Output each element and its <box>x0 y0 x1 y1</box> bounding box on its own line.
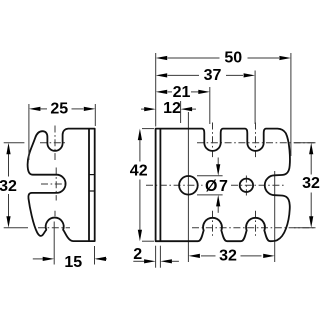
svg-text:21: 21 <box>173 84 191 101</box>
arrow 15 left <box>43 257 55 261</box>
dim line 50 left seg <box>168 57 220 59</box>
svg-text:7: 7 <box>219 178 228 195</box>
centerline left hook horizontal <box>38 227 70 229</box>
leader dia7 top tangent <box>197 175 223 177</box>
arrow 2 left (outside) <box>144 259 156 263</box>
ext line 32R bottom <box>294 227 316 229</box>
arrow 15 right <box>95 257 107 261</box>
ext tick 42 top <box>142 128 154 130</box>
centerline bottom hooks horizontal <box>192 227 316 229</box>
dim line 25 left seg <box>41 108 48 110</box>
ext line 12 right <box>180 101 182 123</box>
arrow 32B right <box>263 254 275 258</box>
dim line 32R lower seg <box>310 193 312 217</box>
left view flange tick lower <box>89 190 95 192</box>
centerline holes horizontal right <box>231 184 286 186</box>
centerline left hook vertical dash <box>54 211 56 216</box>
right view part outline <box>156 129 290 242</box>
ext line 37 right <box>254 71 256 125</box>
ext line left edge (50/37/21/12) <box>155 53 157 127</box>
dim line 32B left seg <box>201 255 216 257</box>
arrow 37 left <box>156 73 168 77</box>
centerline top notches horizontal <box>197 142 316 144</box>
tail 2 right <box>172 260 179 262</box>
arrow 32R down <box>309 216 313 228</box>
ext line 32L top <box>4 142 25 144</box>
ext line 15 left (hook center) <box>53 222 55 265</box>
arrow 12 left (outside) <box>144 107 156 111</box>
dim line 50 right seg <box>248 57 280 59</box>
centerline holes horizontal left <box>146 184 203 186</box>
arrow 50 right <box>279 56 291 60</box>
hole1 centerline / ext 32 bottom left <box>187 112 189 262</box>
tail 2 left <box>133 260 144 262</box>
ext line 25 left <box>28 104 30 160</box>
arrow 42 down <box>138 230 142 242</box>
svg-text:Ø: Ø <box>205 178 217 195</box>
centerline left notch vertical <box>54 126 56 161</box>
dim line 32L lower seg <box>8 194 10 217</box>
centerline left tongue horizontal <box>41 183 69 185</box>
centerline hook B vertical <box>255 211 257 237</box>
arrow 32L up <box>6 143 10 155</box>
dim line 21 right seg <box>191 91 200 93</box>
ext line 2 right <box>159 246 161 268</box>
centerline notch B vertical <box>255 123 257 158</box>
arrow 25 left <box>29 107 41 111</box>
arrow 2 right (outside) <box>160 259 172 263</box>
ext line 50 right <box>290 53 292 156</box>
dim line 21 left seg <box>168 91 173 93</box>
centerline hook A vertical <box>212 211 214 237</box>
svg-text:32: 32 <box>0 178 17 195</box>
dim line 32R upper seg <box>310 154 312 175</box>
ext line 2 left <box>155 246 157 268</box>
svg-text:15: 15 <box>64 254 82 271</box>
arrow 32R up <box>309 143 313 155</box>
arrow 21 right <box>198 90 210 94</box>
ext tick 42 bottom <box>142 240 154 242</box>
dim line 32B right seg <box>241 255 262 257</box>
dim line 32L upper seg <box>8 154 10 177</box>
svg-text:25: 25 <box>50 100 68 117</box>
svg-text:32: 32 <box>302 175 320 192</box>
ext line 32L bottom <box>4 227 28 229</box>
centerline notch A vertical <box>212 123 214 158</box>
svg-text:2: 2 <box>133 246 142 263</box>
centerline hole2 vertical <box>245 176 247 196</box>
tail 15 right <box>97 258 107 260</box>
left view part outline <box>28 129 95 242</box>
arrow 32L down <box>6 216 10 228</box>
arrow 50 left <box>156 56 168 60</box>
arrow 32B left <box>188 254 200 258</box>
leader dia7 bottom tangent <box>197 194 223 196</box>
svg-text:32: 32 <box>219 247 237 264</box>
right view bend line (2mm flange) <box>159 129 161 242</box>
arrow 25 right <box>84 107 96 111</box>
ext line 21 right <box>209 87 211 124</box>
bulb centerline / ext 32 bottom right <box>274 171 276 262</box>
centerline left notch horizontal <box>40 142 67 144</box>
tail 15 left <box>33 258 43 260</box>
arrow 37 right <box>244 73 256 77</box>
dim line 37 left seg <box>168 74 200 76</box>
hole 1 diameter 7 <box>179 176 198 195</box>
arrow 21 left <box>156 90 168 94</box>
ext line 25 right <box>94 104 96 126</box>
svg-text:12: 12 <box>163 100 181 117</box>
tail 12 right <box>192 108 196 110</box>
arrow dia7 up <box>216 195 220 207</box>
svg-text:37: 37 <box>204 67 222 84</box>
dim line 42 lower seg <box>139 180 141 231</box>
tail 12 left <box>141 108 145 110</box>
arrow dia7 down <box>216 164 220 176</box>
centerline left tongue vertical <box>55 168 57 201</box>
arrow 42 up <box>138 129 142 141</box>
dim line 25 right seg <box>72 108 84 110</box>
svg-text:42: 42 <box>130 163 148 180</box>
svg-text:50: 50 <box>224 49 242 66</box>
shaft dia7 lower <box>217 205 219 213</box>
dim line 42 upper seg <box>139 140 141 162</box>
shaft dia7 upper <box>217 158 219 167</box>
dim line 37 right seg <box>226 74 243 76</box>
arrow 12 right (outside) <box>181 107 193 111</box>
ext line 15 right <box>94 246 96 265</box>
hole 2 small <box>240 179 253 192</box>
left view flange tick upper <box>89 174 95 176</box>
left view flange inner edge <box>88 129 90 242</box>
ext line 32R top <box>294 142 316 144</box>
